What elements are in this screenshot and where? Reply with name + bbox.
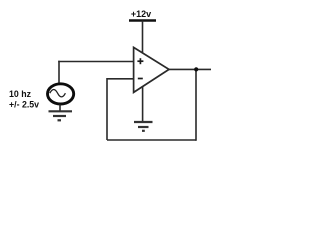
op-amp - input marker: [138, 78, 143, 80]
node output junction: [194, 67, 198, 71]
wire source to + input vertical: [58, 61, 60, 84]
wire feedback left vertical: [106, 78, 108, 140]
ground (op-amp): [134, 122, 153, 131]
ground (source): [49, 111, 73, 120]
wire feedback right vertical: [195, 69, 197, 140]
wire - input horizontal: [107, 78, 134, 80]
AC source V1: [48, 84, 74, 104]
wire output horizontal: [169, 68, 211, 70]
svg-text:10 hz: 10 hz: [9, 89, 32, 99]
svg-text:+/- 2.5v: +/- 2.5v: [9, 100, 39, 110]
wire feedback bottom horizontal: [107, 139, 196, 141]
wire source stem to ground: [59, 105, 61, 112]
op-amp U1: [134, 47, 169, 92]
svg-text:+12v: +12v: [131, 9, 151, 19]
wire V- to ground vertical: [142, 86, 144, 122]
op-amp + input marker: [137, 58, 143, 64]
wire + input horizontal: [58, 61, 134, 63]
wire V+ supply vertical: [142, 21, 144, 54]
+12v power rail bar: [129, 19, 156, 21]
